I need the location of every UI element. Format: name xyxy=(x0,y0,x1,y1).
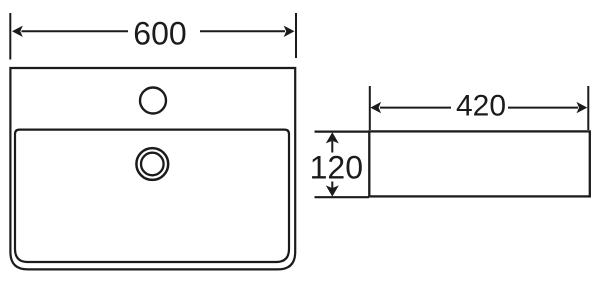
extension line top (120 dim) xyxy=(315,131,370,133)
side view rectangle xyxy=(369,131,590,196)
arrowhead 120 down xyxy=(326,185,339,196)
extension line right (420 dim) xyxy=(587,86,589,130)
arrowhead 420 right xyxy=(577,102,588,113)
dimension line 420 right segment xyxy=(508,107,578,109)
sink top view inner basin xyxy=(15,130,289,262)
dimension line 600 right segment xyxy=(200,30,285,32)
dimension line 600 left segment xyxy=(22,30,129,32)
dimension line 420 left segment xyxy=(380,107,451,109)
svg-text:600: 600 xyxy=(133,16,186,52)
svg-text:120: 120 xyxy=(310,150,363,186)
dimension line 120 top segment xyxy=(331,141,333,153)
extension line left (600 dim) xyxy=(9,13,11,60)
extension line left (420 dim) xyxy=(369,86,371,130)
svg-text:420: 420 xyxy=(456,90,506,123)
faucet hole xyxy=(140,88,166,114)
arrowhead 120 up xyxy=(326,132,339,143)
arrowhead 600 left xyxy=(12,26,23,37)
dimension line 120 bottom segment xyxy=(331,182,333,191)
arrowhead 600 right xyxy=(284,26,295,37)
arrowhead 420 left xyxy=(370,102,381,113)
sink top view outer outline xyxy=(10,68,295,269)
extension line right (600 dim) xyxy=(295,13,297,58)
extension line bottom (120 dim) xyxy=(315,196,370,198)
drain outer circle xyxy=(136,148,168,180)
drain inner circle xyxy=(141,153,164,176)
